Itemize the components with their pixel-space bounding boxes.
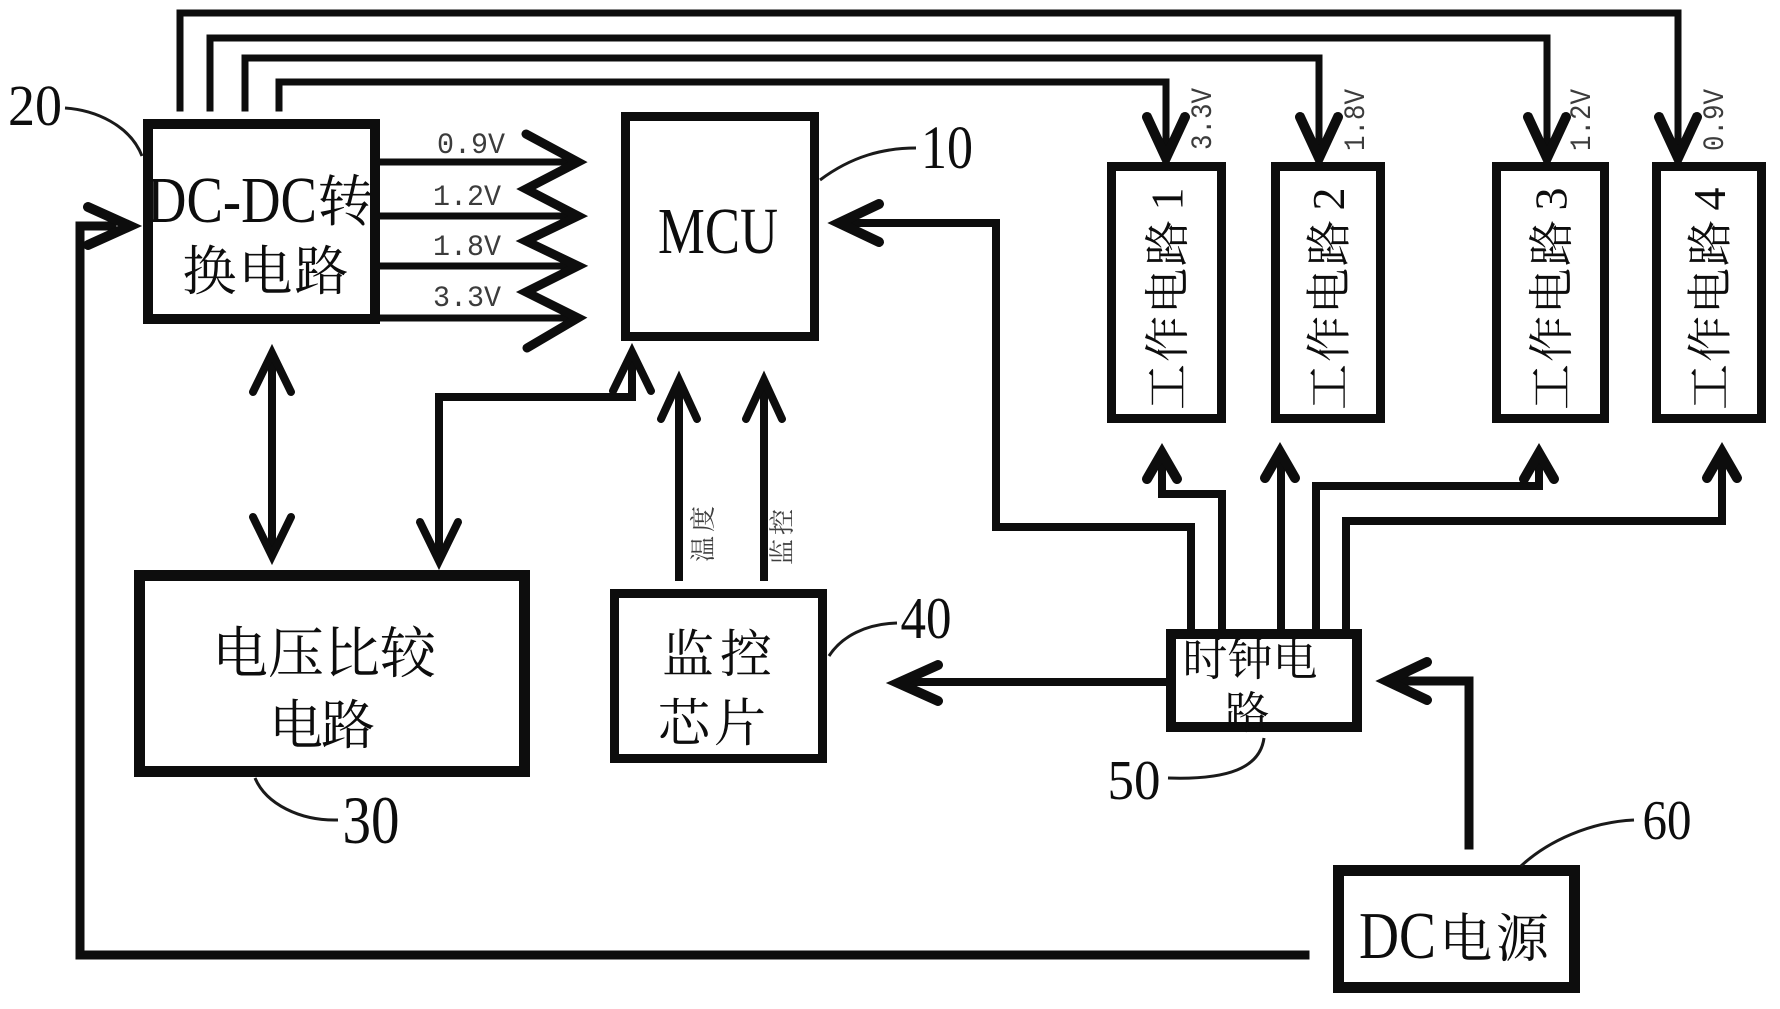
box 工作电路1: [1112, 167, 1222, 419]
wire DC supply feed: bottom run, left riser and stub into DC-DC: [80, 226, 1305, 955]
box 工作电路2: [1276, 167, 1381, 419]
box 30 电压比较电路: [140, 576, 525, 772]
arrowhead down toward 电压比较电路: [253, 517, 291, 556]
label DC-DC转换电路: [147, 164, 372, 294]
leader line for 50: [1168, 738, 1264, 778]
wire 时钟电路 to 工作电路1: [1162, 460, 1222, 627]
box 20 DC-DC转换电路: [148, 124, 375, 319]
leader line for 60: [1521, 820, 1634, 866]
arrowhead into 工作电路1 top: [1147, 117, 1185, 158]
svg-text:3.3V: 3.3V: [1187, 88, 1221, 150]
label DC电源: [1359, 899, 1547, 973]
arrowhead into DC-DC left: [88, 207, 130, 245]
wire 时钟电路 to 工作电路3: [1316, 460, 1539, 627]
arrowhead up into 工作电路4 bottom: [1707, 452, 1737, 478]
svg-text:1.8V: 1.8V: [1340, 89, 1374, 151]
wire DC电源 to 时钟电路: [1392, 681, 1469, 845]
svg-text:50: 50: [1108, 750, 1161, 812]
arrowhead into 工作电路2 top: [1300, 117, 1338, 158]
leader line for 20: [65, 108, 142, 156]
wire 时钟电路 to 工作电路2: [1277, 458, 1285, 627]
arrowhead into 工作电路4 top: [1659, 117, 1697, 158]
wire 监控 signal 监控芯片 to MCU: [760, 384, 768, 577]
svg-text:0.9V: 0.9V: [1699, 89, 1733, 151]
leader line for 30: [255, 778, 338, 820]
arrowhead up toward DC-DC: [253, 353, 291, 392]
svg-text:DC: DC: [1359, 899, 1436, 973]
wire rail net V2 from DC-DC top to 工作电路3: [210, 38, 1547, 150]
wire 时钟电路 to 工作电路4: [1346, 460, 1722, 627]
arrowhead left into 时钟电路 right: [1387, 662, 1427, 700]
wire rail net V4 from DC-DC top to 工作电路1: [279, 82, 1166, 150]
label 0.9V at 工作电路4 input (rotated): [1699, 89, 1733, 151]
svg-text:20: 20: [8, 73, 62, 138]
label 工作电路3 (rotated): [1526, 188, 1577, 409]
box 工作电路3: [1497, 167, 1605, 419]
box 10 MCU: [626, 117, 815, 337]
label 工作电路2 (rotated): [1303, 188, 1354, 409]
box 工作电路4: [1657, 167, 1762, 419]
arrowhead down into 电压比较电路 top: [420, 522, 458, 561]
box 40 监控芯片: [615, 594, 823, 759]
wire 电压比较电路 to MCU L-link: [439, 356, 632, 552]
label 1.8V at 工作电路2 input (rotated): [1340, 89, 1374, 151]
svg-text:3.3V: 3.3V: [433, 282, 501, 316]
wire rail net V3 from DC-DC top to 工作电路2: [245, 58, 1319, 150]
leader line for 10: [820, 148, 916, 180]
arrowhead left toward 监控芯片: [898, 665, 938, 701]
arrowhead up into MCU bottom: [613, 352, 651, 391]
wire rail net V1 from DC-DC top to 工作电路4: [180, 13, 1678, 150]
svg-text:DC-DC: DC-DC: [147, 164, 317, 237]
arrowhead left into MCU right: [839, 204, 879, 242]
label 1.2V at 工作电路3 input (rotated): [1566, 89, 1600, 151]
box 60 DC电源: [1339, 871, 1575, 988]
wire between DC-DC and 电压比较电路: [268, 357, 276, 552]
wire 温度 signal 监控芯片 to MCU: [675, 384, 683, 577]
label 监控芯片: [660, 629, 770, 746]
wire 时钟电路 to MCU: [845, 223, 1191, 627]
svg-text:1.2V: 1.2V: [433, 181, 501, 215]
arrowhead 温度 up: [661, 380, 697, 419]
svg-text:2: 2: [1303, 188, 1354, 211]
arrowhead 监控 up: [746, 380, 782, 419]
wire 1.8V rail to MCU: [383, 263, 572, 270]
label 3.3V at 工作电路1 input (rotated): [1187, 88, 1221, 150]
box 50 时钟电路: [1171, 634, 1357, 727]
label 监控 (rotated): [769, 510, 793, 564]
label 温度 (rotated): [690, 507, 714, 561]
svg-text:60: 60: [1643, 790, 1692, 852]
arrowhead up into 工作电路2 bottom: [1265, 452, 1295, 478]
wire 3.3V rail to MCU: [383, 315, 572, 322]
wire 时钟电路 to 监控芯片: [905, 678, 1166, 686]
arrowhead into 工作电路3 top: [1528, 117, 1566, 158]
svg-text:1.2V: 1.2V: [1566, 89, 1600, 151]
svg-text:1: 1: [1142, 188, 1193, 211]
arrowhead up into 工作电路1 bottom: [1147, 453, 1177, 479]
label 工作电路1 (rotated): [1142, 188, 1193, 409]
leader line for 40: [829, 623, 897, 656]
zigzag arrowhead chain into MCU: [526, 134, 578, 348]
wire 1.2V rail to MCU: [383, 213, 572, 220]
svg-text:MCU: MCU: [658, 195, 778, 268]
svg-text:4: 4: [1684, 188, 1735, 211]
svg-text:10: 10: [921, 115, 973, 182]
label 电压比较电路: [219, 625, 434, 748]
svg-text:1.8V: 1.8V: [433, 231, 501, 265]
label 时钟电路: [1186, 638, 1316, 732]
svg-text:0.9V: 0.9V: [437, 129, 505, 163]
arrowhead up into 工作电路3 bottom: [1524, 453, 1554, 479]
svg-text:30: 30: [343, 782, 400, 858]
svg-text:40: 40: [901, 585, 952, 651]
label 工作电路4 (rotated): [1684, 188, 1735, 409]
svg-text:3: 3: [1526, 188, 1577, 211]
wire 0.9V rail to MCU: [383, 159, 572, 166]
